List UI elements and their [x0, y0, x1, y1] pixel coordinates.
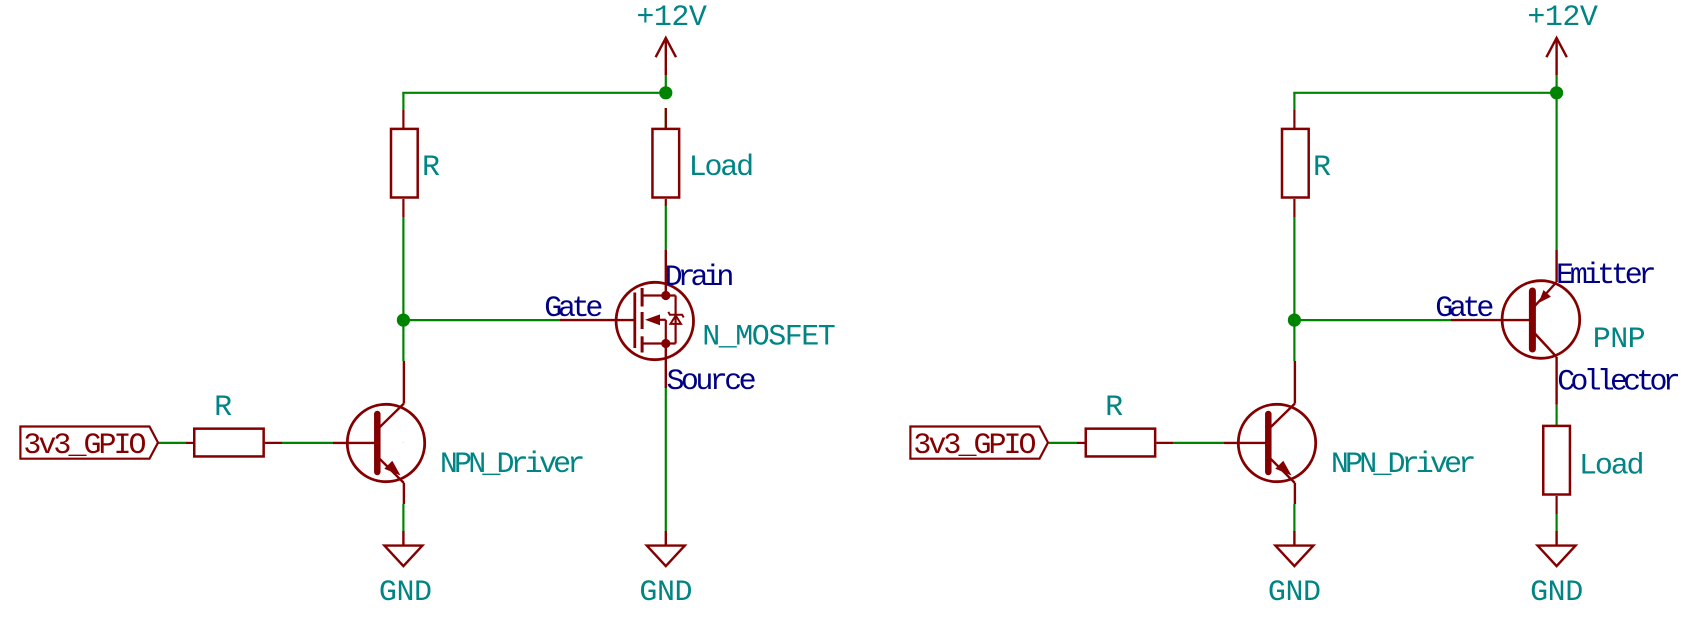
svg-text:R: R: [422, 151, 440, 185]
svg-text:GND: GND: [379, 576, 432, 610]
svg-text:Drain: Drain: [665, 261, 733, 295]
svg-text:3v3_GPIO: 3v3_GPIO: [23, 429, 145, 463]
svg-text:NPN_Driver: NPN_Driver: [440, 448, 583, 482]
svg-text:+12V: +12V: [1527, 1, 1598, 35]
svg-text:GND: GND: [1530, 576, 1583, 610]
svg-text:GND: GND: [639, 576, 692, 610]
svg-text:+12V: +12V: [636, 1, 707, 35]
svg-text:Gate: Gate: [544, 292, 602, 326]
svg-text:R: R: [1105, 391, 1123, 425]
svg-text:N_MOSFET: N_MOSFET: [702, 320, 835, 354]
svg-text:R: R: [214, 391, 232, 425]
svg-text:Gate: Gate: [1435, 292, 1493, 326]
svg-text:Source: Source: [667, 365, 756, 399]
svg-text:Load: Load: [1579, 449, 1643, 483]
svg-text:NPN_Driver: NPN_Driver: [1331, 448, 1474, 482]
svg-text:Emitter: Emitter: [1556, 259, 1654, 293]
svg-text:3v3_GPIO: 3v3_GPIO: [913, 429, 1035, 463]
svg-text:R: R: [1313, 151, 1331, 185]
svg-text:Load: Load: [689, 151, 753, 185]
svg-text:Collector: Collector: [1557, 365, 1679, 399]
svg-text:GND: GND: [1268, 576, 1321, 610]
svg-text:PNP: PNP: [1593, 323, 1645, 357]
